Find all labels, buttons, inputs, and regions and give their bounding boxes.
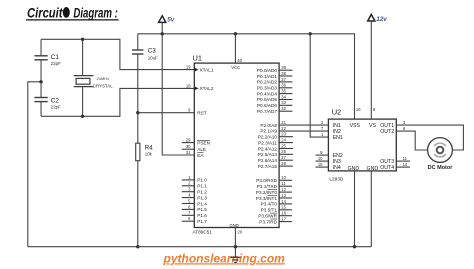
svg-text:P3.7/RD: P3.7/RD [259,219,277,224]
U1 right pin P3.0/RXD (10) [256,175,292,183]
U2 left pin IN4 (15) [316,162,341,171]
svg-text:25: 25 [281,143,286,148]
U1 left pin RST (9) [188,108,207,116]
svg-text:10uF: 10uF [148,55,158,60]
U2 right pin OUT1 (3) [380,120,406,129]
wire P2.1 to U2 IN2 [279,130,328,132]
svg-text:P1.6: P1.6 [197,213,207,218]
svg-text:14: 14 [403,162,408,167]
svg-text:L293D: L293D [329,176,343,181]
U1 right pin P3.1/TXD (11) [257,181,292,189]
U1 right pin P3.6/WR (16) [258,211,292,219]
svg-text:OUT2: OUT2 [380,129,394,135]
svg-text:33: 33 [281,100,286,105]
svg-text:GND: GND [367,166,379,172]
wire EA from 5v rail [162,34,194,155]
node XTAL2 net bottom rail [41,88,194,116]
svg-text:11: 11 [281,181,286,186]
svg-text:35: 35 [281,89,286,94]
U1 right pin P3.2/INT0 (12) [256,187,292,195]
svg-text:P2.5/A13: P2.5/A13 [258,152,278,157]
svg-text:17: 17 [281,217,286,222]
svg-text:P0.0/AD0: P0.0/AD0 [257,68,277,73]
svg-text:P1.4: P1.4 [197,201,207,206]
svg-text:24: 24 [281,138,286,143]
svg-text:U1: U1 [193,54,202,63]
svg-text:10: 10 [281,175,286,180]
svg-text:16: 16 [356,107,361,112]
svg-text:22pF: 22pF [51,104,61,109]
svg-text:24MHz: 24MHz [97,76,110,81]
capacitor C2 [34,97,61,109]
U1 right pin P2.5/A13 (26) [258,149,293,157]
U2 bottom GND pin 2 [370,171,372,247]
svg-text:15: 15 [281,205,286,210]
svg-text:pythonslearning.com: pythonslearning.com [163,251,286,265]
svg-text:GND: GND [230,223,239,228]
svg-text:21: 21 [281,120,286,125]
svg-text:C2: C2 [51,97,60,104]
U1 right pin P0.7/AD7 (32) [257,106,292,114]
node XTAL1 net top rail [41,39,194,69]
svg-text:Circuit: Circuit [27,6,63,21]
U2 left pin IN3 (10) [316,156,341,165]
svg-text:19: 19 [186,65,191,70]
svg-text:OUT4: OUT4 [380,165,394,171]
U1 right pin P0.6/AD6 (33) [257,100,292,108]
U2 left pin EN1 (1) [321,132,343,141]
svg-text:P3.2/INT0: P3.2/INT0 [256,190,277,195]
svg-text:P0.1/AD1: P0.1/AD1 [257,74,277,79]
svg-text:P1.5: P1.5 [197,207,207,212]
5v arrow [159,16,175,34]
U1 right pin P0.2/AD2 (37) [257,77,292,85]
svg-text:38: 38 [281,71,286,76]
svg-text:P1.7: P1.7 [197,219,207,224]
svg-text:26: 26 [281,149,286,154]
svg-text:EA: EA [197,153,204,158]
U2 bottom GND pin [354,171,356,247]
svg-text:12v: 12v [376,16,387,23]
svg-text:RST: RST [197,111,207,116]
svg-text:14: 14 [281,199,286,204]
svg-text:5v: 5v [167,17,175,24]
svg-text:P1.0: P1.0 [197,178,207,183]
title "Circuit Diagram :" [26,6,119,21]
U1 left pin P1.6 (7) [182,210,207,218]
svg-text:P2.0/A8: P2.0/A8 [260,123,277,128]
svg-text:DC Motor: DC Motor [428,165,454,171]
U1 right pin P0.4/AD4 (35) [257,89,292,97]
U1 left pin XTAL1 (19) [186,65,214,73]
U1 right pin P2.1/A9 (22) [260,126,286,134]
svg-text:12: 12 [281,187,286,192]
svg-text:27: 27 [281,155,286,160]
svg-text:ALE: ALE [197,147,206,152]
U1 right pin P2.3/A11 (24) [258,138,293,146]
op U2 L293D body [328,119,396,171]
U2 left pin IN1 (2) [321,120,341,129]
svg-text:37: 37 [281,77,286,82]
svg-text:15: 15 [318,162,323,167]
capacitor C3 [132,34,158,61]
U1 left pin EA (31) [186,150,204,158]
U1 left pin P1.1 (2) [182,181,207,189]
svg-text:Diagram :: Diagram : [73,6,118,21]
svg-text:11: 11 [403,156,408,161]
U1 left pin P1.3 (4) [182,193,207,201]
svg-text:PSEN: PSEN [197,140,210,145]
U2 right pin OUT2 (6) [380,126,406,135]
U1 right pin P2.7/A15 (28) [258,161,293,169]
U1 left pin P1.5 (6) [182,204,207,212]
svg-text:U2: U2 [332,108,341,117]
svg-text:20: 20 [237,230,242,235]
svg-text:10k: 10k [145,151,153,156]
svg-text:P2.3/A11: P2.3/A11 [258,140,277,145]
U2 left pin EN2 (9) [316,150,343,159]
svg-text:P3.5/T1: P3.5/T1 [261,208,278,213]
svg-text:P3.0/RXD: P3.0/RXD [256,178,277,183]
svg-text:CRYSTAL: CRYSTAL [93,84,113,89]
svg-text:30: 30 [186,144,191,149]
U1 right pin P0.1/AD1 (38) [257,71,292,79]
op U1 AT89C51 body [194,63,279,227]
U1 right pin P0.3/AD3 (36) [257,83,292,91]
U1 left pin P1.4 (5) [182,198,207,206]
wire VCC drop to U1 [234,34,236,63]
svg-text:22: 22 [281,126,286,131]
svg-text:18: 18 [186,83,191,88]
svg-text:P0.5/AD5: P0.5/AD5 [257,97,277,102]
motor M1 DC Motor [428,138,454,172]
ground rail [28,246,372,248]
svg-text:AT89C51: AT89C51 [193,229,213,234]
U1 left pin ALE (30) [182,144,206,152]
wire C3 to RST to R4 [137,55,139,144]
svg-text:P2.7/A15: P2.7/A15 [258,164,278,169]
svg-text:16: 16 [281,211,286,216]
svg-text:P1.1: P1.1 [197,184,207,189]
U1 right pin P2.0/A8 (21) [260,120,286,128]
U1 left pin P1.2 (3) [182,187,207,195]
U1 right pin P3.4/T0 (14) [261,199,292,207]
U1 right pin P2.6/A14 (27) [258,155,293,163]
ground symbol [230,247,240,263]
svg-text:P2.1/A9: P2.1/A9 [260,129,277,134]
svg-text:R4: R4 [145,144,153,151]
svg-text:P3.3/INT1: P3.3/INT1 [256,196,277,201]
U1 left pin XTAL2 (18) [186,83,214,91]
svg-text:P2.6/A14: P2.6/A14 [258,158,278,163]
wire RST [138,112,195,114]
U1 right pin P0.0/AD0 (39) [257,65,292,73]
U1 GND pin 20 [234,228,236,247]
svg-text:VS: VS [369,123,376,129]
svg-text:P1.3: P1.3 [197,195,207,200]
wire C1-C2 chain [40,39,42,55]
svg-text:P3.1/TXD: P3.1/TXD [257,184,278,189]
svg-text:36: 36 [281,83,286,88]
svg-text:34: 34 [281,94,286,99]
U2 right pin OUT4 (14) [380,162,410,171]
svg-text:28: 28 [281,161,286,166]
svg-text:31: 31 [186,150,191,155]
U1 right pin P3.5/T1 (15) [261,205,292,213]
wire OUT2 to motor [396,131,427,150]
U1 right pin P2.4/A12 (25) [258,143,293,151]
wire OUT1 to motor [396,125,463,150]
svg-text:IN4: IN4 [333,165,341,171]
wire EN1 from 5v rail [310,34,328,137]
svg-text:P1.2: P1.2 [197,190,207,195]
svg-text:23: 23 [281,132,286,137]
svg-text:C3: C3 [148,47,157,54]
svg-text:P3.4/T0: P3.4/T0 [261,202,278,207]
U1 left pin P1.0 (1) [182,175,207,183]
U1 left pin PSEN (29) [182,138,210,146]
svg-text:VSS: VSS [350,123,361,129]
svg-text:P2.2/A10: P2.2/A10 [258,135,278,140]
svg-text:P0.2/AD2: P0.2/AD2 [257,80,277,85]
U2 right pin OUT3 (11) [380,156,410,165]
svg-text:XTAL2: XTAL2 [200,86,214,91]
U1 right pin P2.2/A10 (23) [258,132,293,140]
svg-text:39: 39 [281,65,286,70]
svg-text:EN1: EN1 [333,135,343,141]
svg-text:13: 13 [281,193,286,198]
svg-text:P0.4/AD4: P0.4/AD4 [257,91,277,96]
svg-text:XTAL1: XTAL1 [200,67,214,72]
svg-text:29: 29 [186,138,191,143]
U1 left pin P1.7 (8) [182,216,207,224]
svg-text:40: 40 [237,58,242,63]
wire ground branch from C1/C2 junction [28,82,41,247]
U1 right pin P3.3/INT1 (13) [256,193,292,201]
svg-text:GND: GND [348,166,360,172]
svg-text:10: 10 [318,156,323,161]
capacitor C1 [34,54,61,66]
svg-text:VCC: VCC [231,65,240,70]
svg-text:P0.7/AD7: P0.7/AD7 [257,109,277,114]
svg-text:P3.6/WR: P3.6/WR [258,214,277,219]
svg-text:P2.4/A12: P2.4/A12 [258,146,278,151]
svg-text:P0.3/AD3: P0.3/AD3 [257,86,277,91]
svg-text:22pF: 22pF [51,61,61,66]
U1 right pin P0.5/AD5 (34) [257,94,292,102]
svg-text:P0.6/AD6: P0.6/AD6 [257,103,277,108]
U2 left pin IN2 (7) [321,126,341,135]
resistor R4 10k [136,143,154,247]
wire P2.0 to U2 IN1 [279,124,328,126]
5v power rail [138,34,355,119]
12v arrow [368,14,388,119]
svg-text:32: 32 [281,106,286,111]
svg-text:C1: C1 [51,54,60,61]
crystal X1 24MHz [74,39,114,116]
U1 right pin P3.7/RD (17) [259,217,292,225]
